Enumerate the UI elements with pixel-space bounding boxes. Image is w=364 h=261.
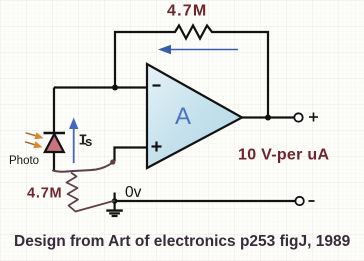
wire output bbox=[242, 116, 294, 118]
label - at terminal bbox=[309, 200, 315, 202]
svg-text:0v: 0v bbox=[125, 184, 142, 201]
light arrow 1 bbox=[26, 132, 44, 139]
current arrow (blue, feedback direction) bbox=[158, 45, 238, 54]
junction node (feedback / inverting input) bbox=[112, 85, 118, 91]
ground bbox=[106, 193, 123, 217]
resistor R2 4.7M (hand-drawn, to ground) bbox=[67, 173, 79, 212]
svg-text:Is: Is bbox=[79, 133, 93, 150]
wire bottom return bbox=[115, 200, 296, 202]
wire below photodiode bbox=[53, 152, 55, 171]
resistor R1 4.7M (feedback) bbox=[172, 26, 215, 39]
wire non-inverting input L-shape bbox=[115, 148, 148, 162]
junction blob (hand-drawn) bbox=[110, 159, 115, 164]
op-amp U1 bbox=[147, 64, 242, 168]
svg-text:4.7M: 4.7M bbox=[27, 186, 62, 202]
junction node ground bbox=[112, 198, 118, 204]
wire hand-drawn resistor to ground bbox=[76, 201, 115, 212]
wire feedback top left segment bbox=[115, 32, 172, 88]
label + at output bbox=[309, 113, 318, 122]
svg-text:4.7M: 4.7M bbox=[167, 3, 207, 20]
svg-text:10 V-per uA: 10 V-per uA bbox=[238, 147, 329, 164]
terminal + output bbox=[294, 113, 302, 121]
photodiode D1 bbox=[44, 133, 66, 152]
terminal - output bbox=[295, 197, 303, 205]
junction node output bbox=[265, 115, 271, 121]
svg-text:A: A bbox=[175, 103, 191, 130]
wire inverting input bbox=[54, 86, 147, 88]
wire hand-drawn from photodiode to non-inverting node bbox=[53, 163, 112, 172]
wire left vertical to photodiode bbox=[53, 88, 55, 135]
wire feedback top right segment bbox=[215, 32, 268, 118]
svg-text:Photo: Photo bbox=[9, 155, 39, 167]
op-amp plus input mark bbox=[152, 142, 162, 152]
current arrow Is (blue, up) bbox=[69, 118, 78, 164]
svg-text:Design from Art of electronics: Design from Art of electronics p253 figJ… bbox=[14, 233, 351, 250]
light arrow 2 bbox=[25, 141, 43, 148]
op-amp minus input mark bbox=[153, 84, 161, 86]
